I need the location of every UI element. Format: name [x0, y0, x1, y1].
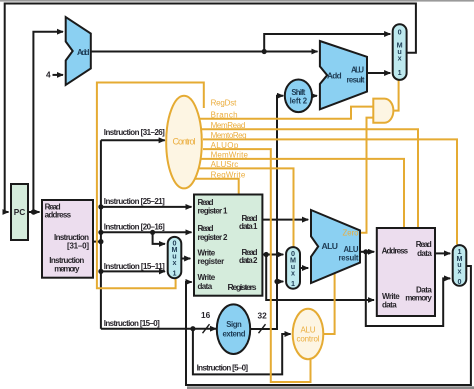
svg-text:ALU: ALU — [351, 65, 364, 74]
svg-text:Registers: Registers — [228, 282, 257, 292]
wire: sign extend output up to shift left 2 — [250, 96, 283, 329]
label: bus width 32 slash — [259, 324, 266, 333]
svg-text:extend: extend — [223, 330, 246, 339]
svg-text:data 2: data 2 — [239, 256, 258, 265]
svg-text:data: data — [198, 282, 213, 291]
svg-text:1: 1 — [398, 68, 402, 77]
wire: ALUSrc mux output to ALU input 2 — [300, 267, 308, 269]
wire: instruction [20-16] to read register 2 — [101, 231, 192, 233]
wire: instruction [15-11] to RegDst mux input 1 — [101, 270, 165, 272]
instruction memory — [42, 200, 93, 278]
wire: constant 4 into Add — [53, 74, 64, 76]
node: bus junction 15-11 — [98, 269, 103, 274]
node: bus junction at memory output — [98, 239, 103, 244]
svg-text:Branch: Branch — [211, 110, 238, 119]
wire: AND gate output to top mux select — [394, 79, 399, 110]
sign extend oval — [217, 304, 250, 354]
svg-text:MemtoReg: MemtoReg — [211, 131, 247, 140]
wire: Read data 2 branch to data memory Write data — [266, 255, 374, 301]
wire: PC+4 up to top mux input 0 — [264, 34, 390, 52]
svg-text:Add: Add — [327, 72, 342, 81]
svg-text:Instruction [15–0]: Instruction [15–0] — [104, 319, 160, 328]
label: bus width 16 slash — [203, 324, 210, 333]
svg-text:Sign: Sign — [226, 320, 242, 329]
svg-text:Control: Control — [173, 137, 196, 147]
wire: instruction [31-26] to Control — [101, 139, 165, 141]
wire: data memory Read data to write-back mux input 1 — [435, 252, 450, 254]
AND gate (branch) — [373, 99, 393, 123]
wire: PC output branch up to Add — [33, 32, 63, 212]
node: ALU result junction — [363, 249, 368, 254]
svg-text:4: 4 — [46, 70, 51, 80]
node: sign extend branch junction — [274, 279, 279, 284]
write-back mux (MemtoReg) — [453, 245, 467, 286]
wire: RegWrite control to registers — [195, 179, 239, 194]
svg-text:Instruction [25–21]: Instruction [25–21] — [104, 197, 165, 206]
svg-text:RegDst: RegDst — [211, 99, 237, 108]
wire: instruction [20-16] branch to RegDst mux input 0 — [153, 232, 165, 244]
wire: ALU control output to ALU — [323, 273, 334, 334]
wire: ALU result to data memory Address — [360, 251, 374, 253]
svg-text:RegWrite: RegWrite — [211, 170, 246, 179]
ALU control oval — [293, 309, 324, 359]
svg-text:Instruction [20–16]: Instruction [20–16] — [104, 223, 165, 232]
svg-text:Add: Add — [77, 48, 90, 57]
svg-text:result: result — [347, 75, 365, 84]
shift left 2 oval — [285, 80, 312, 113]
svg-text:Address: Address — [382, 247, 409, 256]
wire: Read data 1 to ALU input 1 — [262, 219, 308, 221]
node: PC+4 junction — [262, 49, 267, 54]
svg-text:register 1: register 1 — [198, 207, 229, 216]
wire: MemRead control to data memory — [202, 129, 418, 227]
node: junction 15-0 — [190, 326, 195, 331]
svg-text:1: 1 — [291, 279, 295, 288]
node: PC output junction — [31, 209, 36, 214]
svg-text:x: x — [398, 54, 402, 63]
svg-text:x: x — [458, 267, 462, 276]
wire: ALU Zero to AND gate — [360, 118, 373, 233]
control unit oval — [166, 96, 202, 189]
wire: branch Add result to top mux input 1 — [366, 72, 391, 74]
svg-text:x: x — [173, 258, 177, 267]
bottom gray rule — [187, 386, 474, 389]
wire: Branch control to AND gate — [200, 107, 373, 119]
node: bus junction 20-16 — [98, 230, 103, 235]
svg-text:0: 0 — [398, 28, 402, 37]
svg-text:Instruction [15–11]: Instruction [15–11] — [104, 262, 165, 271]
wire: instruction memory output stub — [93, 241, 101, 243]
svg-text:data 1: data 1 — [239, 222, 258, 231]
wire: sign extend branch to ALUSrc mux input 1 — [277, 281, 283, 283]
svg-text:ALUSrc: ALUSrc — [211, 160, 239, 169]
svg-text:memory: memory — [54, 264, 80, 273]
wire: MemWrite control to data memory — [202, 159, 405, 227]
ALUSrc mux — [286, 247, 300, 289]
svg-text:ALU: ALU — [301, 325, 316, 334]
svg-text:register: register — [198, 257, 225, 266]
RegDst mux — [168, 237, 182, 278]
svg-text:data: data — [417, 249, 432, 258]
svg-text:Instruction [31–26]: Instruction [31–26] — [104, 128, 165, 137]
svg-text:MemRead: MemRead — [211, 121, 246, 130]
svg-text:control: control — [297, 335, 320, 344]
svg-text:[31–0]: [31–0] — [67, 241, 89, 250]
svg-text:1: 1 — [173, 269, 177, 278]
main ALU — [311, 210, 360, 283]
wire: PC output to instruction memory read address — [28, 211, 40, 213]
svg-text:data: data — [382, 300, 397, 309]
top mux (PCSrc) — [393, 24, 407, 80]
svg-text:ALU: ALU — [322, 241, 339, 251]
wire: instruction [15-0] to sign extend — [101, 328, 216, 330]
node: bus junction 25-21 — [98, 204, 103, 209]
registers file — [194, 195, 262, 296]
svg-text:MemWrite: MemWrite — [211, 151, 249, 160]
svg-text:result: result — [339, 253, 359, 262]
svg-text:left 2: left 2 — [290, 97, 308, 106]
wire: shift left 2 output to branch Add — [312, 95, 317, 97]
top gray rule — [0, 0, 474, 2]
wire: ALU result bypass to write-back mux input 0 — [366, 252, 450, 326]
wire: instruction [25-21] to read register 1 — [101, 206, 192, 208]
wire: ALUSrc control to ALUSrc mux — [200, 168, 294, 246]
svg-text:Zero: Zero — [343, 228, 360, 237]
node: read data 2 junction — [264, 252, 269, 257]
data memory — [377, 228, 435, 316]
wire: instruction bus vertical — [100, 140, 102, 328]
wire: MemtoReg control to write-back mux — [203, 139, 457, 244]
wire: RegDst control to RegDst mux — [97, 83, 204, 289]
svg-text:Read: Read — [416, 240, 432, 249]
PC register — [11, 184, 28, 240]
branch adder Add ALU result — [320, 41, 367, 109]
svg-text:Shift: Shift — [291, 88, 305, 97]
svg-text:16: 16 — [201, 310, 211, 320]
svg-text:register 2: register 2 — [198, 233, 229, 242]
svg-text:address: address — [45, 210, 72, 219]
node: junction 20-16 branch — [150, 230, 155, 235]
svg-text:memory: memory — [405, 294, 432, 303]
svg-text:x: x — [291, 269, 295, 278]
wire: ALUOp control to ALU control — [203, 149, 311, 382]
svg-text:32: 32 — [258, 311, 268, 321]
wire: write-back mux output to registers Write data — [186, 266, 471, 385]
wire: RegDst mux output to Write register — [181, 258, 190, 260]
svg-text:PC: PC — [14, 207, 26, 217]
svg-text:Instruction [5–0]: Instruction [5–0] — [197, 364, 249, 373]
wire: instruction [5-0] to ALU control — [193, 329, 291, 375]
wire: Add output (PC+4) to branch Add top input — [92, 51, 318, 53]
wire: mux(top) output back to PC (around top and left border) — [5, 4, 416, 213]
svg-text:0: 0 — [458, 277, 462, 286]
adder Add (PC+4) — [66, 17, 91, 85]
wire: Read data 2 to ALUSrc mux input 0 — [262, 254, 283, 256]
svg-text:ALUOp: ALUOp — [211, 141, 239, 150]
